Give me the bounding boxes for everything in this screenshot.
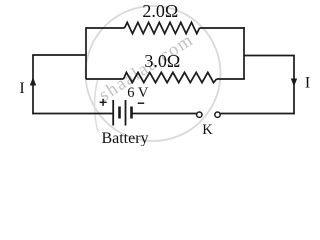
wire: right connector to outer loop bbox=[244, 55, 295, 57]
label plus bbox=[100, 99, 107, 106]
wire: bottom segment battery to switch bbox=[132, 113, 197, 115]
watermark text shaalaa.com bbox=[96, 30, 198, 106]
battery plate long 1 bbox=[112, 100, 114, 126]
svg-text:2.0Ω: 2.0Ω bbox=[142, 1, 178, 21]
resistor R1 2.0ohm zigzag bbox=[125, 22, 200, 33]
wire: left connector to outer loop bbox=[32, 54, 86, 56]
current arrow up on left wire bbox=[30, 77, 36, 86]
resistor R2 3.0ohm zigzag bbox=[124, 72, 217, 82]
wire: top branch right segment bbox=[200, 27, 245, 29]
wire: bottom branch left segment bbox=[86, 78, 124, 80]
wire: parallel box right vertical bbox=[243, 27, 245, 79]
battery plate short 1 bbox=[118, 107, 121, 119]
watermark circle bbox=[86, 6, 221, 141]
wire: parallel box left vertical bbox=[85, 27, 87, 79]
svg-text:I: I bbox=[305, 75, 310, 92]
wire: left outer vertical bbox=[32, 55, 34, 114]
wire: right outer vertical bbox=[293, 56, 295, 115]
battery plate short 2 bbox=[130, 107, 133, 119]
switch terminal circle left bbox=[197, 112, 202, 117]
wire: bottom left segment to battery bbox=[32, 113, 113, 115]
wire: bottom branch right segment bbox=[217, 78, 245, 80]
wire: top branch left segment bbox=[86, 27, 125, 29]
svg-text:K: K bbox=[202, 122, 213, 138]
switch terminal circle right bbox=[215, 112, 220, 117]
battery plate long 2 bbox=[125, 100, 127, 126]
watermark left arc bbox=[95, 78, 99, 132]
svg-text:I: I bbox=[19, 80, 24, 97]
svg-text:3.0Ω: 3.0Ω bbox=[144, 51, 180, 71]
label minus bbox=[138, 102, 145, 104]
current arrow down on right wire bbox=[291, 79, 297, 87]
svg-text:Battery: Battery bbox=[101, 130, 148, 146]
svg-text:6 V: 6 V bbox=[127, 85, 149, 101]
wire: bottom right segment from switch bbox=[220, 113, 294, 115]
